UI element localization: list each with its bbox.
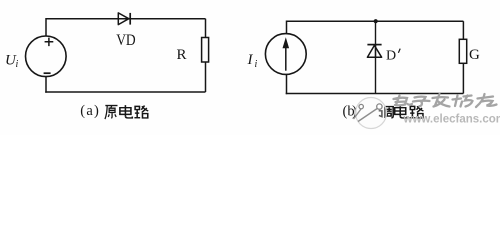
wire: left upper stub (b) [286, 21, 288, 35]
glyph 发 (watermark) [433, 94, 450, 107]
current source I_i [265, 34, 306, 75]
wire: right side of loop (b) [462, 21, 464, 93]
svg-text:I: I [247, 52, 254, 68]
voltage source U_i [26, 36, 67, 77]
glyph 电 (watermark) [394, 96, 413, 106]
wire: bottom side of loop (b) [286, 93, 464, 95]
wire: left upper stub (a) [45, 18, 47, 37]
watermark logo circle [354, 98, 387, 129]
diode D' (pointing up) [367, 45, 381, 58]
plus sign inside source [45, 38, 54, 47]
diode VD [118, 13, 130, 25]
wire: left lower stub (b) [286, 74, 288, 94]
caption glyph 原 [105, 106, 118, 120]
wire: bottom side of loop (a) [45, 91, 205, 93]
wire: diode branch upper [375, 21, 377, 44]
wire: right side of loop (a) [205, 19, 207, 92]
svg-text:i: i [255, 59, 258, 70]
resistor R [202, 38, 209, 63]
wire: diode branch through symbol [375, 44, 377, 57]
arrow inside source [285, 44, 287, 71]
glyph 子 (watermark) [413, 97, 430, 107]
caption glyph 路 (b) [410, 106, 424, 118]
svg-text:D: D [386, 49, 396, 64]
caption glyph 调 [379, 106, 393, 118]
svg-text:VD: VD [116, 32, 136, 49]
watermark text 电子发烧友 (stylized) [394, 94, 497, 107]
node junction dot [374, 19, 378, 23]
wire: left lower stub (a) [45, 76, 47, 92]
glyph 友 (watermark) [476, 94, 497, 107]
wire: top side of loop (b) [287, 20, 464, 22]
svg-text:G: G [469, 47, 480, 63]
resistor G [459, 39, 466, 63]
svg-text:i: i [16, 59, 19, 70]
svg-text:R: R [177, 47, 187, 63]
caption glyph 路 [134, 106, 148, 118]
wire: top side of loop (a) [46, 18, 206, 20]
wire: diode branch lower [375, 45, 377, 94]
minus sign inside source [44, 72, 51, 74]
svg-text:(a): (a) [80, 103, 100, 119]
svg-text:www.elecfans.com: www.elecfans.com [403, 114, 500, 126]
caption glyph 电 [120, 105, 132, 118]
caption glyph 电 (b) [395, 105, 407, 118]
glyph 烧 (watermark) [453, 96, 473, 107]
